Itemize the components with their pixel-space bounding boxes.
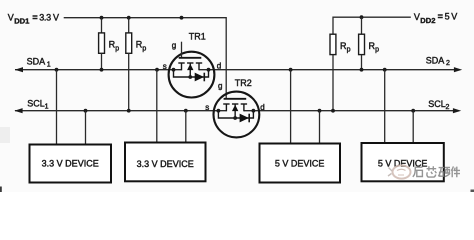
net SDA1 label	[27, 57, 51, 69]
svg-text:=: =	[438, 12, 443, 22]
wire SDA2 bus	[199, 69, 460, 71]
node SCL2-dev4	[411, 109, 415, 113]
svg-text:V: V	[414, 12, 420, 22]
svg-text:TR1: TR1	[189, 32, 206, 42]
svg-text:SCL: SCL	[428, 99, 446, 109]
wire dev4 SDA lead	[384, 70, 386, 143]
node SDA1-dev2	[155, 68, 159, 72]
svg-text:p: p	[347, 47, 351, 54]
wire SCL2 bus	[244, 110, 459, 112]
transistor TR2	[214, 92, 260, 138]
resistor Rp3	[330, 34, 351, 111]
box device2 3.3V	[125, 143, 206, 182]
wire VDD2 rail	[333, 17, 411, 34]
svg-text:2: 2	[446, 104, 450, 111]
svg-text:TR2: TR2	[235, 78, 252, 88]
wire dev3 SDA lead	[290, 70, 292, 144]
wire dev1 SCL lead	[85, 111, 87, 145]
svg-text:g: g	[218, 82, 222, 91]
wire SDA1 bus	[15, 69, 182, 71]
transistor TR1	[169, 42, 215, 98]
svg-text:5 V: 5 V	[445, 12, 458, 22]
svg-text:p: p	[142, 45, 146, 52]
wire dev1 SDA lead	[56, 70, 58, 145]
box device4 5V	[362, 143, 444, 181]
node rail-TR1-gate	[180, 16, 184, 20]
box device1 3.3V	[30, 145, 112, 183]
svg-text:d: d	[260, 103, 264, 112]
net VDD1 label	[8, 13, 59, 26]
svg-text:3.3 V: 3.3 V	[39, 13, 59, 23]
wire dev2 SDA lead	[156, 70, 158, 143]
node SCL1-Rp2	[127, 109, 131, 113]
edge artifact bottom-left	[0, 187, 2, 193]
svg-text:1: 1	[45, 103, 49, 110]
node SCL1-dev2	[184, 109, 188, 113]
svg-text:d: d	[217, 62, 221, 71]
node SDA1-Rp1	[100, 68, 104, 72]
svg-text:2: 2	[446, 60, 450, 67]
arrow SCL1 left	[14, 108, 22, 113]
svg-text:5 V DEVICE: 5 V DEVICE	[275, 159, 325, 169]
node rail-Rp1	[100, 16, 104, 20]
svg-text:3.3 V DEVICE: 3.3 V DEVICE	[137, 159, 194, 169]
box device3 5V	[260, 144, 341, 183]
svg-text:DD2: DD2	[420, 16, 435, 25]
svg-text:3.3 V DEVICE: 3.3 V DEVICE	[42, 159, 99, 169]
node rail-Rp2	[127, 16, 131, 20]
svg-text:=: =	[32, 13, 37, 23]
svg-text:SDA: SDA	[27, 57, 46, 67]
svg-text:p: p	[115, 45, 119, 52]
svg-text:g: g	[172, 41, 176, 50]
node SDA2-dev3	[289, 68, 293, 72]
wire SCL1 bus	[15, 110, 227, 112]
watermark text 启芯硬件	[413, 166, 460, 177]
node SCL2-dev3	[318, 109, 322, 113]
node SDA1-dev1	[55, 68, 59, 72]
wire dev2 SCL lead	[185, 111, 187, 143]
svg-text:SDA: SDA	[426, 55, 445, 65]
resistor Rp1	[99, 18, 120, 70]
net SDA2 label	[426, 55, 450, 67]
net SCL2 label	[428, 99, 449, 111]
net VDD2 label	[414, 12, 457, 26]
arrow SCL2 right	[453, 108, 461, 113]
watermark logo	[388, 165, 411, 178]
arrow SDA1 left	[15, 67, 23, 72]
wire VDD1 rail	[64, 18, 227, 99]
svg-text:DD1: DD1	[14, 16, 30, 25]
svg-text:V: V	[8, 13, 14, 23]
arrow SDA2 right	[454, 67, 462, 72]
resistor Rp2	[126, 18, 147, 111]
node SDA2-Rp4	[360, 68, 364, 72]
svg-text:s: s	[163, 62, 167, 71]
svg-text:s: s	[205, 103, 209, 112]
svg-text:SCL: SCL	[27, 99, 45, 109]
node SCL1-dev1	[84, 109, 88, 113]
net SCL1 label	[27, 99, 48, 111]
svg-text:1: 1	[47, 61, 51, 68]
wire dev4 SCL lead	[412, 111, 414, 143]
node rail-Rp4	[360, 15, 364, 19]
resistor Rp4	[359, 17, 380, 69]
svg-text:p: p	[375, 47, 379, 54]
node SDA2-dev4	[383, 68, 387, 72]
wire dev3 SCL lead	[319, 111, 321, 144]
node SCL2-Rp3	[331, 109, 335, 113]
edge artifact bottom-right	[471, 190, 474, 193]
